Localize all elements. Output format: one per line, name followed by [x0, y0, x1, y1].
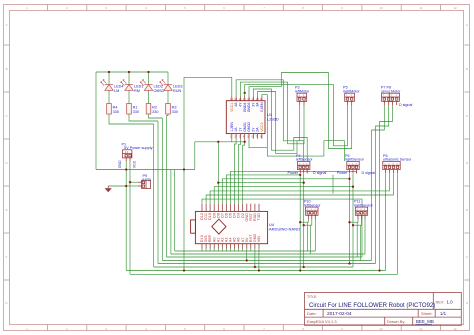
svg-text:3,4EN: 3,4EN	[260, 102, 264, 112]
svg-text:rightMotor: rightMotor	[343, 90, 360, 94]
svg-text:Power: Power	[337, 171, 348, 175]
node rail junction 3	[147, 71, 149, 73]
wire riser x362	[361, 199, 363, 257]
wire resistor2 to bundle	[129, 114, 158, 121]
connector P11 rightSensor	[355, 207, 367, 215]
wire P4 pin1 power net	[299, 174, 301, 271]
svg-text:12: 12	[453, 6, 457, 10]
connector P6 ultrasonic Sensor	[383, 161, 400, 169]
node bottom junction 1	[246, 259, 248, 261]
svg-text:Circuit For LINE FOLLOWER Robo: Circuit For LINE FOLLOWER Robot (PICTO92…	[309, 303, 435, 309]
svg-text:1.0: 1.0	[447, 300, 454, 305]
node mid junction 4	[352, 186, 354, 188]
svg-text:1/1: 1/1	[440, 311, 447, 316]
wire U1 pin13 to P5 pin1	[245, 84, 348, 145]
wire LED1 top link	[108, 72, 110, 85]
svg-text:Power: Power	[288, 171, 299, 175]
connector P9 jump	[138, 180, 151, 188]
wire nano bottom pin wire x234.6	[234, 249, 236, 252]
connector P1 5V power supply	[123, 150, 132, 162]
wire servo pin1 down	[372, 105, 385, 261]
wire nano pin x210.1 bus	[210, 191, 389, 204]
node bus junction 1	[125, 168, 127, 170]
wire nano pin x230.5 bus	[231, 171, 357, 203]
wire ground link	[108, 185, 126, 187]
wire P11 drop a	[356, 222, 358, 257]
wire P4 pin2 net	[303, 174, 305, 268]
svg-text:LED2: LED2	[154, 84, 164, 88]
connector P7 P8 servo Motor	[382, 93, 392, 101]
svg-text:D signal: D signal	[313, 171, 327, 175]
svg-text:servo Motor: servo Motor	[381, 90, 401, 94]
wire U1 pin1 stub wire	[231, 139, 233, 142]
svg-text:LM: LM	[114, 89, 119, 93]
wire LED anode rail	[96, 71, 168, 73]
svg-text:VCC2: VCC2	[260, 122, 264, 131]
node bottom junction 6	[299, 269, 301, 271]
node mid junction 3	[303, 182, 305, 184]
svg-text:E: E	[466, 208, 468, 212]
wire bundle v3	[161, 118, 163, 261]
wire bus row3	[167, 256, 362, 258]
svg-text:330: 330	[152, 110, 158, 114]
resistor R3	[166, 104, 171, 115]
wire U1 pin10 to P4 pin2 area	[258, 92, 304, 162]
svg-text:rightSensor: rightSensor	[354, 203, 374, 207]
svg-text:G: G	[466, 301, 468, 305]
wire P10 pin3 wire	[314, 219, 316, 252]
svg-text:leftSensor: leftSensor	[296, 158, 313, 162]
connector P4 leftSensor	[298, 161, 310, 169]
node sensor junction 1	[299, 221, 301, 223]
svg-text:rightSensor: rightSensor	[345, 158, 365, 162]
wire bus row5	[158, 263, 376, 265]
svg-text:L293D: L293D	[267, 117, 279, 122]
node rail junction 1	[108, 71, 110, 73]
node link junction 2	[244, 141, 246, 143]
wire resistor4 to bundle	[167, 114, 168, 116]
wire P6 pin3 net	[393, 174, 395, 196]
node bottom junction 8	[183, 269, 185, 271]
connector P10 leftSensor	[306, 207, 318, 215]
wire U1 pin12 to P5 pin2	[249, 73, 352, 149]
wire riser x218	[217, 142, 219, 183]
svg-text:G: G	[5, 301, 7, 305]
wire nano bottom pin wire x214.2	[213, 249, 215, 252]
wire U1 pin16 to left rail	[184, 77, 232, 270]
wire P9 pin2 link	[126, 185, 138, 187]
svg-text:F: F	[6, 255, 8, 259]
wire nano pin x202 bus	[202, 199, 362, 203]
svg-text:TXD: TXD	[257, 213, 261, 221]
wire nano pin x214.2 bus	[214, 187, 353, 204]
wire P5s pin1 net	[349, 174, 351, 264]
wire P10 pin1 wire	[300, 219, 308, 223]
wire P11 pin2 wire	[353, 219, 362, 226]
wire P5s pin2 net	[352, 174, 354, 268]
wire nano bottom pin wire x250.8	[250, 249, 252, 252]
wire nano bottom pin wire x242.7	[242, 249, 244, 252]
node bottom junction 7	[378, 269, 380, 271]
svg-text:R3: R3	[172, 105, 177, 109]
node rail junction 2	[128, 71, 130, 73]
svg-text:Sheet:: Sheet:	[421, 311, 433, 316]
wire LED2 top link	[128, 72, 130, 85]
node sensor junction 4	[352, 224, 354, 226]
wire nano bottom pin wire x210.1	[209, 249, 211, 252]
LED LED4	[101, 80, 113, 91]
svg-text:11: 11	[420, 327, 423, 331]
node mid junction 1	[299, 174, 301, 176]
wire nano bottom pin wire x259.0	[258, 249, 260, 252]
connector P3 leftMotor	[297, 93, 307, 101]
wire nano 5V down	[246, 251, 248, 261]
svg-text:GND: GND	[118, 160, 122, 168]
wire bus riser	[194, 142, 196, 170]
wire left rail to GND bus	[95, 72, 97, 170]
wire GND bus	[96, 169, 195, 171]
wire LED4 top link	[167, 72, 169, 85]
wire bundle v4	[166, 116, 168, 258]
wire U1 pin3 to nano D3	[239, 139, 241, 204]
wire nano pin x226.4 bus	[226, 175, 300, 204]
wire bus row1	[175, 250, 316, 252]
wire P10 drop a	[307, 222, 309, 251]
LED LED1	[121, 80, 133, 91]
svg-text:BEE_MB: BEE_MB	[416, 319, 434, 324]
wire nano bottom pin wire x246.8	[246, 249, 248, 252]
svg-text:R4: R4	[113, 105, 118, 109]
wire U1 pin14 to P3 pin2	[240, 82, 304, 144]
svg-text:VIN: VIN	[257, 236, 261, 243]
LED LED3	[160, 80, 172, 91]
wire P6 pin4 net	[397, 174, 399, 275]
wire riser x333	[332, 175, 334, 194]
wire nano bottom pin wire x222.3	[221, 249, 223, 252]
wire P5s pin3 net	[356, 171, 358, 173]
wire U1 pin15 to P3 pin1	[236, 80, 300, 141]
svg-text:ultrasonic Sensor: ultrasonic Sensor	[383, 158, 412, 162]
resistor R1	[127, 104, 132, 115]
wire nano bottom pin wire x226.4	[225, 249, 227, 252]
svg-text:LED3: LED3	[173, 84, 183, 88]
resistor R2	[146, 104, 151, 115]
svg-text:D signal: D signal	[362, 171, 376, 175]
wire nano bottom pin wire x254.9	[254, 249, 256, 252]
wire bundle v2	[157, 121, 159, 264]
svg-text:jump: jump	[142, 177, 151, 181]
wire U1 pin11 to P4 pin3	[253, 89, 307, 174]
connector P5 rightSensor	[347, 161, 359, 169]
wire P10 pin2 wire	[304, 219, 312, 226]
wire nano pin x218.3 bus	[218, 183, 303, 204]
svg-text:E: E	[6, 208, 8, 212]
svg-text:330: 330	[113, 110, 119, 114]
svg-text:B: B	[466, 67, 468, 71]
svg-text:B: B	[6, 67, 8, 71]
wire P9 pin1 link	[130, 181, 138, 183]
wire nano bottom pin wire x230.5	[229, 249, 231, 252]
node mid junction 5	[217, 182, 219, 184]
wire U1 pin5 right link	[249, 139, 267, 148]
wire bundle v1	[153, 124, 155, 267]
svg-text:10: 10	[379, 327, 383, 331]
wire bus row6	[154, 266, 353, 268]
node bottom junction 4	[348, 262, 350, 264]
svg-text:Date:: Date:	[307, 311, 317, 316]
svg-text:TITLE:: TITLE:	[307, 295, 317, 299]
svg-text:10: 10	[379, 6, 383, 10]
svg-text:330: 330	[172, 110, 178, 114]
ground	[105, 186, 111, 192]
svg-text:C: C	[466, 114, 468, 118]
svg-text:VCC: VCC	[132, 160, 136, 168]
svg-text:LED1: LED1	[134, 84, 144, 88]
svg-text:EasyEDA V4.1.3: EasyEDA V4.1.3	[307, 319, 337, 324]
wire P11 pin3 wire	[364, 219, 366, 255]
wire bus row7	[126, 270, 385, 272]
wire riser x170.9	[170, 170, 172, 255]
svg-text:LED4: LED4	[114, 84, 124, 88]
svg-text:R2: R2	[152, 105, 157, 109]
wire bus row2	[171, 253, 365, 255]
svg-text:11: 11	[420, 6, 423, 10]
wire resistor3 to bundle	[149, 114, 163, 118]
wire nano pin x206.1 bus	[206, 195, 393, 204]
svg-text:A: A	[6, 23, 8, 27]
svg-text:leftMotor: leftMotor	[295, 90, 310, 94]
wire P1 VCC net	[129, 162, 131, 275]
svg-text:A: A	[466, 23, 468, 27]
wire bus row8	[130, 273, 398, 275]
wire P6 pin1 net	[385, 174, 387, 271]
node sensor junction 2	[303, 224, 305, 226]
wire U1 pin2 to nano D4	[235, 139, 237, 204]
svg-text:F: F	[466, 255, 468, 259]
svg-text:RM: RM	[134, 89, 140, 93]
wire servo pin3 down	[380, 105, 393, 271]
wire nano bottom pin wire x206.1	[205, 249, 207, 252]
wire U1 lower link	[195, 141, 245, 143]
wire P11 pin1 wire	[350, 219, 359, 223]
resistor R4	[107, 104, 112, 115]
node bottom junction 5	[303, 266, 305, 268]
wire LED3 to resistor	[148, 90, 150, 103]
svg-text:1 2: 1 2	[125, 151, 129, 154]
node mid junction 2	[348, 178, 350, 180]
node bottom junction 2	[254, 266, 256, 268]
svg-text:REV:: REV:	[436, 301, 445, 305]
svg-text:D signal: D signal	[399, 103, 413, 107]
node link junction 1	[217, 141, 219, 143]
wire LED1 to resistor	[108, 90, 110, 103]
svg-text:OBSD: OBSD	[154, 89, 165, 93]
wire P6 pin2 net	[389, 174, 391, 191]
wire resistor1 to bundle	[109, 114, 154, 124]
connector P5 rightMotor	[345, 93, 355, 101]
svg-text:330: 330	[133, 110, 139, 114]
wire nano bottom pin wire x238.6	[238, 249, 240, 252]
title block text	[307, 295, 444, 324]
svg-text:R1: R1	[133, 105, 138, 109]
LED LED2	[140, 80, 152, 91]
wire nano VIN down	[258, 251, 260, 271]
svg-text:RUN: RUN	[173, 89, 181, 93]
wire nano pin x222.3 bus	[222, 179, 349, 204]
wire P1 GND net	[125, 162, 127, 271]
wire bus row4	[162, 260, 371, 262]
svg-text:ARDUINO NANO: ARDUINO NANO	[269, 227, 300, 232]
svg-text:leftSensor: leftSensor	[304, 203, 321, 207]
op-amp U1 L293D motor driver	[226, 101, 265, 134]
wire P10 drop b	[309, 225, 311, 254]
svg-text:5V Power supply: 5V Power supply	[124, 146, 153, 150]
wire P11 drop b	[360, 225, 362, 260]
node U1 junction	[244, 92, 246, 94]
svg-text:D: D	[466, 161, 468, 165]
IC U4 Arduino Nano	[195, 211, 267, 243]
node bottom junction 3	[258, 269, 260, 271]
wire U1 pin4 to nano D2	[243, 139, 245, 204]
wire LED3 top link	[148, 72, 150, 85]
node sensor junction 3	[348, 221, 350, 223]
wire riser x174.7	[174, 170, 176, 252]
wire LED4 to resistor	[167, 90, 169, 103]
svg-text:C: C	[5, 114, 7, 118]
node ground junction	[125, 185, 127, 187]
svg-text:2017-02-04: 2017-02-04	[327, 311, 352, 317]
wire servo pin2 down	[376, 105, 389, 264]
node P9 junction	[129, 181, 131, 183]
svg-text:D: D	[5, 161, 7, 165]
svg-text:Drawn By:: Drawn By:	[387, 319, 405, 324]
wire LED2 to resistor	[128, 90, 130, 103]
wire nano bottom pin wire x218.3	[217, 249, 219, 252]
node bus junction 2	[183, 168, 185, 170]
wire U1 pin9 to P5 area	[262, 95, 345, 162]
svg-text:12: 12	[453, 327, 457, 331]
wire nano bottom pin wire x202.0	[201, 249, 203, 252]
title block	[305, 293, 462, 326]
wire nano GND down	[254, 251, 256, 267]
